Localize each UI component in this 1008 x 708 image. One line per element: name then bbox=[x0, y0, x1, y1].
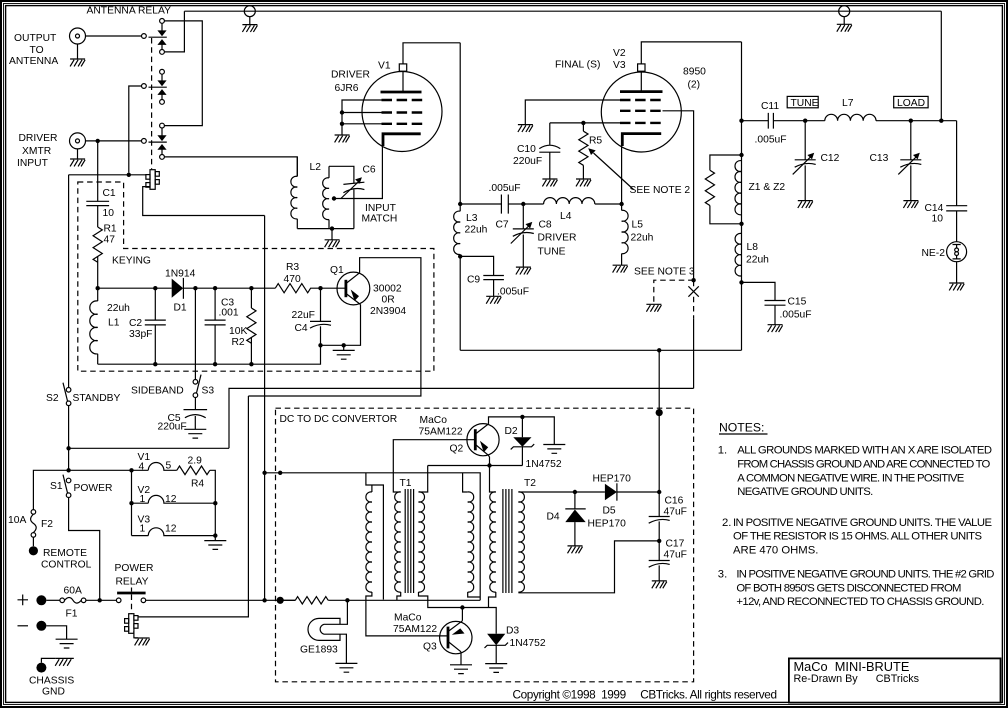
ground (chassis) input match bbox=[325, 240, 340, 247]
label box TUNE bbox=[787, 96, 818, 108]
svg-text:Q2: Q2 bbox=[450, 444, 464, 455]
wire F2 to remote bbox=[32, 537, 34, 546]
ground (earth) Q3 bbox=[450, 665, 472, 674]
label C14 10 bbox=[925, 203, 944, 225]
dashed alternate ground path bbox=[654, 280, 694, 304]
wire negative line right bbox=[328, 599, 480, 601]
svg-text:SEE NOTE 2: SEE NOTE 2 bbox=[630, 185, 691, 196]
wire Q2 emitter drop bbox=[488, 455, 489, 465]
svg-text:C14: C14 bbox=[925, 203, 944, 214]
capacitor C17 bbox=[649, 541, 670, 581]
wire +12 rail into box bbox=[265, 473, 481, 601]
node Q1 base junction bbox=[318, 286, 322, 290]
svg-text:INPUT: INPUT bbox=[17, 158, 49, 169]
relay coil K1 bbox=[146, 170, 159, 190]
node C16 C17 midpoint bbox=[657, 539, 661, 543]
svg-text:22uh: 22uh bbox=[746, 255, 769, 266]
svg-text:R3: R3 bbox=[286, 262, 299, 273]
power relay contact bbox=[116, 588, 145, 603]
node C9 tap bbox=[458, 254, 462, 258]
title block box bbox=[789, 658, 1001, 702]
svg-text:33pF: 33pF bbox=[129, 329, 152, 340]
wire NE-2 to ground bbox=[956, 262, 958, 283]
svg-text:2N3904: 2N3904 bbox=[370, 306, 406, 317]
wire gnd stem bbox=[343, 345, 345, 350]
svg-text:2.: 2. bbox=[722, 517, 731, 529]
diode D5 bbox=[605, 483, 659, 500]
svg-text:C13: C13 bbox=[870, 153, 889, 164]
svg-text:75AM122: 75AM122 bbox=[419, 427, 463, 438]
node C12 junction bbox=[803, 119, 807, 123]
ground (chassis) C12 bbox=[798, 201, 813, 208]
wire V2 screen line bbox=[550, 122, 620, 124]
wire S2 rail bbox=[69, 447, 229, 449]
svg-text:ARE 470 OHMS.: ARE 470 OHMS. bbox=[733, 544, 818, 556]
svg-text:DRIVER: DRIVER bbox=[538, 233, 577, 244]
ground (chassis) below left circle bbox=[242, 25, 257, 32]
wire to C9 bbox=[460, 256, 493, 275]
inductor L8 bbox=[735, 233, 741, 276]
transformer T1 primary right bbox=[419, 466, 463, 608]
wire J2 to relay contact 3 bbox=[86, 140, 142, 142]
ground (earth) lamp bbox=[335, 663, 357, 672]
svg-text:INPUT: INPUT bbox=[365, 203, 397, 214]
wire V2 cathode down to L4/L5 bbox=[621, 146, 623, 204]
svg-text:REMOTE: REMOTE bbox=[43, 548, 87, 559]
svg-text:+12v, AND RECONNECTED TO CHAS: +12v, AND RECONNECTED TO CHASSIS GROUND. bbox=[736, 596, 984, 608]
svg-text:Q1: Q1 bbox=[330, 265, 344, 276]
label C10 220uF bbox=[513, 144, 542, 167]
svg-text:D5: D5 bbox=[603, 506, 616, 517]
ground (earth) filament bbox=[204, 541, 226, 550]
center winding D bbox=[463, 473, 481, 597]
wire R4 to ground riser bbox=[210, 470, 216, 540]
label INPUT MATCH bbox=[362, 203, 398, 225]
wire output riser bbox=[658, 350, 660, 516]
ground (chassis) C13 bbox=[903, 201, 918, 208]
diode D4 bbox=[565, 492, 585, 546]
svg-text:F2: F2 bbox=[41, 519, 53, 530]
svg-text:R1: R1 bbox=[104, 224, 117, 235]
svg-text:S1: S1 bbox=[50, 481, 63, 492]
ground (earth) negative bbox=[56, 639, 78, 648]
svg-text:22uF: 22uF bbox=[292, 310, 315, 321]
svg-text:R5: R5 bbox=[589, 136, 602, 147]
svg-text:Q3: Q3 bbox=[423, 642, 437, 653]
label CHASSIS GND bbox=[29, 676, 74, 698]
label SIDEBAND S3 bbox=[131, 386, 214, 397]
label V1 4 5 bbox=[138, 452, 172, 473]
ground (chassis) V1 grids bbox=[335, 135, 350, 142]
diode D3 zener bbox=[485, 634, 509, 664]
lamp GE1893 bbox=[308, 618, 340, 640]
svg-text:1.: 1. bbox=[718, 445, 727, 457]
svg-text:STANDBY: STANDBY bbox=[73, 393, 121, 404]
node DC-DC box entry bbox=[277, 597, 284, 604]
svg-text:MATCH: MATCH bbox=[362, 214, 398, 225]
wire relay coil ground stem bbox=[134, 631, 138, 638]
wire to Q1 base bbox=[321, 287, 346, 289]
node C4 bottom bbox=[318, 343, 322, 347]
wire Q1 collector bbox=[248, 258, 421, 396]
arrow SEE NOTE 2 pointer bbox=[588, 148, 633, 189]
transformer T1 feedback winding bbox=[366, 473, 384, 601]
DC-DC converter box dashed outline bbox=[276, 408, 694, 682]
resistor R4 bbox=[177, 466, 210, 475]
node C1 tap on input wire bbox=[96, 139, 100, 143]
wire V1 plate to B+ riser bbox=[403, 43, 460, 64]
svg-text:V1: V1 bbox=[378, 61, 391, 72]
ground (chassis) under J2 bbox=[70, 159, 85, 166]
keying ground rail bbox=[98, 345, 321, 364]
node gnd rail R2 bbox=[249, 362, 253, 366]
svg-text:Z1 & Z2: Z1 & Z2 bbox=[749, 182, 786, 193]
top ground rail wire bbox=[184, 10, 941, 12]
node +12 rail at box edge bbox=[278, 471, 282, 475]
wire filament feed bbox=[69, 469, 149, 471]
wire plate line to C7 bbox=[460, 203, 501, 205]
switch S2 STANDBY bbox=[63, 175, 71, 406]
wire filament riser bbox=[131, 470, 133, 535]
V1 plate bbox=[381, 91, 422, 94]
node L2 secondary tap bbox=[332, 196, 336, 200]
note 2 text bbox=[722, 517, 992, 557]
capacitor C3 bbox=[205, 288, 226, 364]
svg-text:R2: R2 bbox=[232, 337, 245, 348]
node output box edge bbox=[656, 409, 663, 416]
svg-text:22uh: 22uh bbox=[631, 233, 654, 244]
capacitor C5 bbox=[184, 410, 208, 430]
capacitor C1 bbox=[86, 201, 109, 227]
wire Q3 emitter to ground bbox=[460, 652, 462, 665]
svg-text:ANTENNA: ANTENNA bbox=[9, 56, 58, 67]
inductor L2 primary bbox=[291, 157, 297, 229]
svg-text:OF THE RESISTOR IS 15 OHMS. A: OF THE RESISTOR IS 15 OHMS. ALL OTHER UN… bbox=[733, 531, 982, 543]
svg-text:T2: T2 bbox=[524, 478, 536, 489]
svg-text:10: 10 bbox=[103, 208, 115, 219]
svg-text:.005uF: .005uF bbox=[489, 183, 521, 194]
wire V2 plate to B+ bbox=[641, 42, 741, 64]
label L8 22uh bbox=[746, 242, 769, 266]
wire Q1 emitter rail bbox=[321, 305, 361, 346]
label C15 .005uF bbox=[780, 297, 812, 321]
wire antenna feed from top rail bbox=[940, 11, 942, 121]
capacitor C15 bbox=[765, 301, 786, 325]
resistor R5 bbox=[579, 123, 588, 179]
svg-text:1N4752: 1N4752 bbox=[526, 459, 562, 470]
ground (chassis) right circle bbox=[837, 24, 852, 31]
ground (chassis) under J1 bbox=[70, 59, 85, 66]
inductor L5 bbox=[622, 204, 629, 265]
capacitor C9 bbox=[483, 276, 504, 297]
wire standby line to relay coil bbox=[69, 174, 146, 176]
svg-text:GND: GND bbox=[42, 687, 65, 698]
wire Q3 collector bbox=[461, 608, 463, 621]
node emitter gnd bbox=[342, 343, 346, 347]
relay contact K1c bbox=[142, 123, 167, 159]
node L3 top bbox=[458, 202, 462, 206]
label L3 22uh bbox=[465, 213, 488, 236]
node S2 rail junction bbox=[66, 446, 70, 450]
ground (chassis) alternate bbox=[646, 304, 661, 311]
label L5 22uh bbox=[631, 220, 654, 244]
wire V1 cathode to input match tap bbox=[334, 146, 382, 199]
svg-text:10A: 10A bbox=[8, 515, 26, 526]
svg-text:C10: C10 bbox=[517, 144, 536, 155]
wire +12 riser to power line bbox=[264, 216, 266, 601]
wire lamp bottom lead bbox=[340, 634, 346, 663]
label 10K R2 bbox=[229, 326, 247, 348]
label REMOTE CONTROL bbox=[41, 548, 92, 571]
inductor L4 bbox=[523, 198, 621, 204]
svg-text:S2: S2 bbox=[46, 393, 59, 404]
wire L2 secondary top to C6 bbox=[329, 166, 354, 183]
svg-text:DC TO DC CONVERTOR: DC TO DC CONVERTOR bbox=[280, 414, 398, 425]
svg-text:D2: D2 bbox=[505, 426, 518, 437]
keying signal rail bbox=[98, 287, 276, 289]
ground (chassis) C9 bbox=[486, 296, 501, 303]
inductor L3 bbox=[454, 211, 461, 350]
svg-text:NOTES:: NOTES: bbox=[719, 421, 764, 435]
svg-text:12: 12 bbox=[165, 494, 177, 505]
transistor Q1 bbox=[337, 272, 370, 305]
ground (chassis) C17 bbox=[652, 581, 667, 588]
terminal chassis gnd bbox=[36, 663, 46, 673]
node rail C2 bbox=[153, 286, 157, 290]
svg-text:TUNE: TUNE bbox=[538, 247, 566, 258]
node S1 relay junction bbox=[98, 598, 102, 602]
resistor R feed 470 bbox=[295, 597, 328, 604]
svg-text:C11: C11 bbox=[761, 101, 779, 112]
wire relay contact out bbox=[146, 599, 296, 601]
V2 top cap bbox=[638, 64, 645, 92]
svg-text:L8: L8 bbox=[747, 242, 759, 253]
svg-text:2.9: 2.9 bbox=[188, 456, 203, 467]
svg-text:D4: D4 bbox=[547, 512, 560, 523]
svg-text:12: 12 bbox=[165, 524, 177, 535]
node D4 junction bbox=[573, 490, 577, 494]
wire negative to ground bbox=[46, 626, 66, 639]
node D2 top bbox=[520, 415, 524, 419]
svg-text:C6: C6 bbox=[363, 165, 376, 176]
note 1 text bbox=[718, 445, 992, 498]
resistor R1 bbox=[93, 227, 102, 288]
label C11 .005uF bbox=[755, 101, 787, 146]
V1 grid 2 bbox=[382, 111, 424, 113]
svg-text:L5: L5 bbox=[632, 220, 644, 231]
label 2.9 R4 bbox=[188, 456, 205, 490]
svg-text:ANTENNA RELAY: ANTENNA RELAY bbox=[87, 6, 172, 17]
svg-text:220uF: 220uF bbox=[158, 422, 187, 433]
svg-text:C7: C7 bbox=[496, 220, 509, 231]
transformer T2 primary bbox=[489, 466, 496, 608]
svg-text:L7: L7 bbox=[842, 98, 854, 109]
svg-text:OF BOTH 8950'S GETS DISCONNECT: OF BOTH 8950'S GETS DISCONNECTED FROM bbox=[736, 582, 961, 594]
label 8950 (2) bbox=[683, 67, 706, 91]
node rail R2 bbox=[249, 286, 253, 290]
relay coil K2 bbox=[125, 614, 138, 634]
capacitor C4 bbox=[310, 288, 331, 345]
wire lamp top lead bbox=[340, 600, 347, 624]
note 3 text bbox=[718, 569, 995, 609]
wire contact3 NC to L2 bbox=[164, 157, 297, 177]
V2 cathode bbox=[622, 134, 661, 146]
svg-text:HEP170: HEP170 bbox=[593, 474, 632, 485]
svg-text:RELAY: RELAY bbox=[116, 577, 149, 588]
transformer T2 core bbox=[503, 489, 512, 593]
label R1 47 bbox=[104, 224, 117, 246]
svg-text:KEYING: KEYING bbox=[112, 256, 151, 267]
svg-text:60A: 60A bbox=[64, 586, 82, 597]
node +12 riser junction bbox=[262, 598, 266, 602]
relay contact K1a bbox=[142, 19, 167, 55]
ground (chassis) NE-2 bbox=[949, 283, 964, 290]
svg-text:C12: C12 bbox=[821, 153, 840, 164]
variable capacitor C6 bbox=[341, 177, 365, 228]
switch S3 SIDEBAND bbox=[193, 375, 201, 398]
wire contact1 NO to contact3 NO bbox=[164, 21, 202, 126]
svg-text:NEGATIVE GROUND UNITS.: NEGATIVE GROUND UNITS. bbox=[737, 486, 873, 498]
node R5 top bbox=[581, 121, 585, 125]
wire contact2 common to keying area bbox=[129, 86, 142, 173]
label 60A F1 bbox=[64, 586, 82, 620]
label MaCo 75AM122 Q3 bbox=[393, 613, 437, 653]
svg-text:47: 47 bbox=[104, 235, 116, 246]
svg-text:L3: L3 bbox=[466, 213, 478, 224]
wire B+ distribution line bbox=[460, 349, 741, 351]
node +12 rail at riser bbox=[262, 471, 266, 475]
svg-text:3.: 3. bbox=[718, 569, 727, 581]
svg-text:TO: TO bbox=[30, 45, 44, 56]
resistor Z1 parallel bbox=[705, 155, 741, 224]
node Q3 collector bbox=[460, 605, 464, 609]
V2 grid 1 bbox=[620, 99, 663, 101]
node C15 junction bbox=[739, 280, 743, 284]
svg-text:C9: C9 bbox=[467, 275, 480, 286]
wire C1 top bbox=[97, 141, 99, 201]
label C16 47uF bbox=[664, 496, 687, 518]
node C8 tap bbox=[521, 202, 525, 206]
neon lamp NE-2 bbox=[947, 242, 967, 262]
label C9 .005uF bbox=[467, 275, 529, 298]
node rail L1 bbox=[96, 286, 100, 290]
svg-text:SIDEBAND: SIDEBAND bbox=[131, 386, 184, 397]
svg-text:R4: R4 bbox=[191, 479, 204, 490]
fuse F1 bbox=[60, 598, 86, 604]
svg-text:HEP170: HEP170 bbox=[588, 519, 627, 530]
V1 cathode bbox=[383, 134, 421, 146]
ground (chassis) R5 bbox=[576, 179, 591, 186]
node V3 filament right bbox=[213, 533, 217, 537]
wire relay coil to Q1 line bbox=[138, 396, 248, 617]
svg-text:MaCo: MaCo bbox=[394, 613, 422, 624]
ground (chassis) V2 grid bbox=[518, 125, 533, 132]
wire contact1 NC to top rail bbox=[164, 11, 184, 52]
tube V1 envelope bbox=[362, 72, 442, 152]
svg-text:470: 470 bbox=[284, 274, 301, 285]
svg-text:(2): (2) bbox=[688, 80, 701, 91]
svg-text:XMTR: XMTR bbox=[22, 146, 51, 157]
node bias X junction bbox=[691, 278, 695, 282]
svg-text:0R: 0R bbox=[382, 295, 395, 306]
ground (chassis) C15 bbox=[768, 325, 783, 332]
wire to C15 bbox=[742, 282, 776, 300]
negative line with resistor bbox=[280, 599, 295, 601]
transistor Q2 bbox=[467, 424, 499, 456]
V2 grid 3 bbox=[620, 122, 663, 124]
svg-text:MaCo MINI-BRUTE: MaCo MINI-BRUTE bbox=[794, 659, 910, 674]
svg-text:Re-Drawn By CBTricks: Re-Drawn By CBTricks bbox=[794, 673, 920, 685]
wire F2 branch bbox=[33, 470, 68, 509]
svg-text:Copyright ©1998 1999 CBTr: Copyright ©1998 1999 CBTricks. All right… bbox=[513, 687, 778, 701]
connector J2 DRIVER XMTR INPUT bbox=[70, 133, 86, 159]
transistor Q3 bbox=[440, 621, 472, 654]
V2 grid 2 bbox=[620, 110, 663, 112]
label C2 33pF bbox=[129, 318, 152, 340]
svg-text:C17: C17 bbox=[666, 539, 685, 550]
V2 filament jumper bbox=[132, 495, 216, 503]
label C3 .001 bbox=[219, 298, 239, 319]
wire Q2 collector bbox=[489, 417, 555, 445]
transformer T1 core bbox=[405, 489, 413, 593]
label C8 DRIVER TUNE bbox=[538, 220, 577, 258]
svg-text:1N914: 1N914 bbox=[165, 269, 196, 280]
wire Q2 base bbox=[393, 440, 475, 492]
label 10A F2 bbox=[8, 515, 53, 530]
svg-text:LOAD: LOAD bbox=[897, 98, 925, 109]
diode D2 zener bbox=[511, 417, 535, 466]
wire S2 to rail bbox=[68, 406, 70, 471]
ground terminal circle right bbox=[839, 6, 850, 25]
capacitor C2 bbox=[145, 288, 166, 364]
svg-text:10: 10 bbox=[932, 214, 944, 225]
svg-text:C1: C1 bbox=[103, 188, 116, 199]
wire to F1 bbox=[46, 599, 60, 601]
svg-text:C8: C8 bbox=[539, 220, 552, 231]
wire T2 secondary top bbox=[518, 491, 605, 493]
svg-text:C4: C4 bbox=[295, 323, 308, 334]
label C17 47uF bbox=[664, 539, 687, 561]
svg-text:FINAL (S): FINAL (S) bbox=[555, 60, 600, 71]
svg-text:6JR6: 6JR6 bbox=[335, 83, 359, 94]
label 30002 0R 2N3904 bbox=[370, 284, 406, 318]
svg-text:L2: L2 bbox=[310, 162, 322, 173]
wire to C14 bbox=[956, 121, 958, 206]
label C5 220uF bbox=[158, 413, 187, 433]
svg-text:220uF: 220uF bbox=[513, 156, 542, 167]
label V3 1 12 bbox=[138, 515, 177, 535]
wire T2 secondary bottom bbox=[518, 541, 659, 593]
node Q2 emitter bbox=[487, 463, 491, 467]
svg-text:A COMMON NEGATIVE WIRE. IN TH: A COMMON NEGATIVE WIRE. IN THE POSITIVE bbox=[737, 472, 964, 484]
svg-text:IN POSITIVE NEGATIVE GROUND UN: IN POSITIVE NEGATIVE GROUND UNITS. THE V… bbox=[733, 517, 992, 529]
svg-text:CONTROL: CONTROL bbox=[41, 560, 92, 571]
label .005uF C7 bbox=[489, 183, 521, 231]
terminal REMOTE CONTROL bbox=[29, 546, 38, 555]
wire B+ riser right bbox=[741, 42, 743, 350]
relay contact K1b (spare) bbox=[142, 69, 167, 104]
node DC-DC output junction bbox=[657, 348, 661, 352]
wire Q2 emitter rail bbox=[428, 465, 523, 467]
node L5 top bbox=[619, 202, 623, 206]
wire V2 grid1 to ground bbox=[525, 100, 620, 125]
svg-text:CHASSIS: CHASSIS bbox=[29, 676, 74, 687]
svg-text:.005uF: .005uF bbox=[780, 310, 812, 321]
transformer T2 secondary bbox=[518, 492, 524, 592]
ground (chassis) L5 bbox=[613, 265, 628, 272]
label S1 POWER bbox=[50, 481, 112, 494]
wire V2 grid2 to bias riser bbox=[663, 111, 694, 389]
